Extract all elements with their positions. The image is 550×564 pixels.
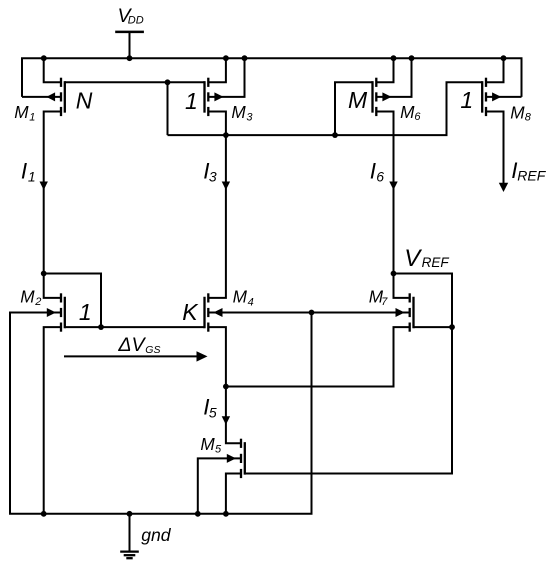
wire VREF vertical to M5 gate line (246, 327, 452, 473)
label M4 (233, 287, 254, 309)
label 1 (M8 ratio) (460, 87, 473, 113)
svg-text:REF: REF (517, 167, 546, 183)
junction dot ground rail / M5 source (223, 511, 229, 517)
junction dot VDD rail / VDD stub (127, 55, 133, 61)
svg-text:K: K (182, 299, 199, 325)
junction dot ground rail / M5 bulk (195, 511, 201, 517)
svg-text:2: 2 (34, 296, 41, 308)
wire gate bias line to M8 gate (168, 82, 483, 135)
annotation arrow delta VGS (64, 355, 198, 357)
wire gate line M2-M4 (65, 326, 205, 328)
svg-text:GS: GS (145, 344, 160, 356)
label 1 (M2 ratio) (79, 299, 92, 325)
label delta VGS (117, 334, 160, 356)
junction dot VDD rail / M3 bulk (242, 55, 248, 61)
wire M6 gate lead (335, 82, 373, 135)
wire M1 bulk lead (22, 96, 60, 98)
transistor M8 (PMOS) (481, 78, 501, 116)
wire M8 drain (IREF) (486, 112, 504, 184)
wire M3 bulk to rail (208, 58, 244, 97)
wire M7 gate lead (414, 326, 453, 328)
transistor M3 (PMOS) (203, 78, 223, 116)
svg-text:4: 4 (248, 296, 254, 308)
label I6 (370, 159, 385, 185)
junction dot VDD rail / M8 source (501, 55, 507, 61)
svg-text:I: I (370, 159, 376, 184)
junction dot node I1 / M2 diode loop (41, 271, 47, 277)
wire M5 bulk from ground (198, 458, 241, 513)
svg-text:1: 1 (29, 111, 35, 123)
wire M1 drain to M2 drain (I1) (44, 112, 60, 298)
wire M3 source to rail (208, 58, 226, 82)
svg-text:1: 1 (185, 88, 198, 114)
svg-text:7: 7 (381, 296, 388, 308)
transistor M2 (NMOS) (47, 293, 66, 331)
junction dot bias line / M6 gate (332, 132, 338, 138)
svg-text:5: 5 (215, 444, 222, 456)
current arrow IREF (499, 183, 508, 192)
svg-text:REF: REF (422, 255, 450, 270)
wire ground rail with risers (10, 313, 312, 514)
junction dot node VREF (391, 271, 397, 277)
svg-text:M: M (348, 87, 368, 113)
junction dot VDD rail / M3 source (223, 55, 229, 61)
junction dot bias line / M3 drain (223, 132, 229, 138)
junction dot node I5 (223, 384, 229, 390)
label M6 (400, 102, 421, 123)
wire M2 source to ground (44, 327, 60, 514)
label K (M4 ratio) (182, 299, 199, 325)
svg-text:gnd: gnd (141, 525, 172, 545)
label M8 (510, 103, 532, 124)
wire M5 source to ground (226, 474, 241, 514)
wire M2 diode loop (44, 274, 101, 328)
svg-text:I: I (21, 158, 27, 183)
wire M1 source from rail (44, 58, 60, 82)
wire I3 from bias line to M4 drain (208, 135, 226, 298)
svg-text:N: N (76, 88, 93, 114)
svg-text:8: 8 (525, 112, 532, 124)
svg-text:M: M (510, 103, 525, 123)
label gnd (141, 525, 172, 545)
label VDD (118, 5, 144, 27)
annotation arrowhead delta VGS (197, 351, 208, 361)
junction dot VDD rail / M6 bulk (409, 55, 415, 61)
wire M8 source to rail (486, 58, 504, 82)
wire M6 source to rail (376, 58, 393, 82)
svg-text:M: M (400, 102, 415, 122)
label I3 (203, 158, 217, 184)
current arrow I5 (222, 416, 230, 425)
wire VDD top rail (22, 58, 522, 97)
svg-text:1: 1 (28, 168, 36, 184)
svg-text:6: 6 (414, 111, 421, 123)
label IREF (511, 158, 546, 184)
svg-text:M: M (233, 287, 248, 307)
svg-text:DD: DD (128, 14, 144, 26)
label VREF (404, 245, 449, 272)
wire gate line M1-M3 (65, 81, 205, 83)
svg-text:M: M (200, 434, 215, 454)
label I1 (21, 158, 36, 184)
junction dot M2 gate line (98, 324, 104, 330)
svg-text:3: 3 (209, 168, 217, 184)
label M7 (369, 287, 389, 309)
svg-text:1: 1 (460, 87, 473, 113)
svg-text:M: M (231, 102, 246, 122)
junction dot ground rail / M2 source (41, 511, 47, 517)
current arrow I3 (222, 182, 230, 191)
svg-text:M: M (14, 102, 29, 122)
current arrow I6 (389, 182, 397, 191)
transistor M6 (PMOS) (371, 78, 391, 116)
svg-text:1: 1 (79, 299, 92, 325)
ground symbol gnd (120, 514, 139, 558)
junction dot M7 gate / VREF loop (449, 324, 455, 330)
svg-text:3: 3 (246, 111, 253, 123)
power VDD symbol (115, 32, 144, 58)
transistor M4 (NMOS) (203, 293, 222, 331)
label M2 (20, 286, 41, 308)
transistor M1 (PMOS) (46, 78, 66, 116)
junction dot VDD rail / M6 source (391, 55, 397, 61)
label 1 (M3 ratio) (185, 88, 198, 114)
svg-text:5: 5 (209, 404, 217, 420)
label N (M1 ratio) (76, 88, 93, 114)
wire M6 bulk to rail (376, 58, 411, 97)
transistor M5 (NMOS) (227, 439, 246, 478)
wire gate bias drop (167, 82, 169, 135)
svg-text:V: V (404, 245, 422, 272)
label M5 (200, 434, 222, 456)
label M1 (14, 102, 35, 123)
label M3 (231, 102, 253, 124)
wire M8 bulk lead (486, 96, 522, 98)
wire I5 to M5 drain (226, 387, 241, 444)
transistor M7 (NMOS) (396, 293, 415, 331)
wire M6 drain to M7 drain (I6) (376, 112, 408, 298)
junction dot VDD rail / M1 source (41, 55, 47, 61)
label I5 (203, 394, 217, 420)
current arrow I1 (40, 182, 48, 191)
svg-text:6: 6 (376, 168, 384, 184)
wire bulk line M4-M7 (208, 312, 409, 314)
wire VREF node to M7 gate loop (394, 274, 453, 328)
junction dot ground rail / gnd stub (127, 511, 133, 517)
junction dot bulk line / ground riser (309, 310, 315, 316)
svg-text:M: M (20, 286, 35, 306)
svg-text:ΔV: ΔV (117, 334, 146, 356)
wire M3 drain to bias line (208, 112, 226, 136)
wire M4 source down (208, 327, 226, 386)
label M (M6 ratio) (348, 87, 368, 113)
wire source line M4/M7 to I5 node (226, 327, 410, 386)
junction dot gate line node (165, 79, 171, 85)
